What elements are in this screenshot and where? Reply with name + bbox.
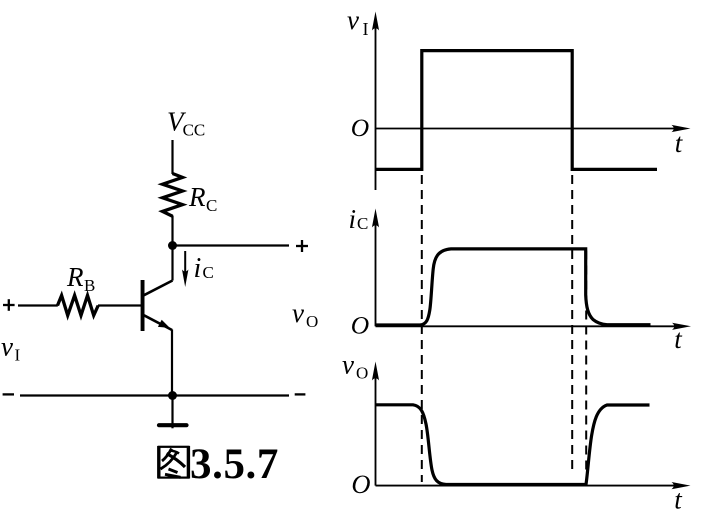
svg-text:O: O [356, 364, 368, 383]
svg-text:C: C [203, 263, 214, 282]
svg-text:C: C [357, 214, 368, 233]
svg-text:v: v [342, 350, 354, 380]
svg-text:R: R [66, 262, 84, 292]
svg-text:R: R [188, 182, 206, 212]
svg-text:B: B [84, 276, 95, 295]
svg-text:CC: CC [183, 120, 206, 139]
svg-text:O: O [351, 469, 370, 499]
svg-text:t: t [675, 128, 684, 158]
svg-text:3.5.7: 3.5.7 [190, 441, 279, 488]
svg-text:i: i [349, 204, 357, 234]
svg-text:O: O [306, 312, 318, 331]
svg-text:t: t [674, 485, 683, 513]
svg-text:I: I [15, 346, 21, 365]
svg-text:O: O [351, 113, 369, 142]
svg-text:C: C [206, 196, 217, 215]
svg-text:v: v [347, 5, 359, 35]
svg-text:v: v [292, 298, 304, 328]
svg-text:t: t [674, 324, 683, 354]
svg-text:i: i [194, 253, 202, 284]
svg-text:I: I [363, 19, 369, 39]
svg-text:v: v [1, 332, 13, 362]
svg-text:O: O [351, 310, 369, 339]
